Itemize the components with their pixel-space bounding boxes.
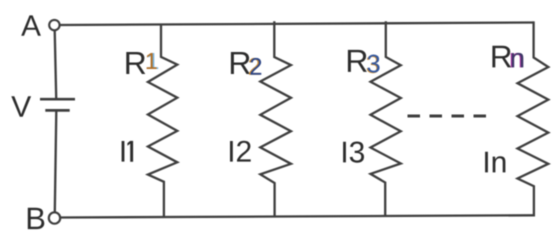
label R2 subscript 2 (blue core) bbox=[250, 58, 261, 75]
battery value label V bbox=[11, 96, 31, 117]
wire dashed continuation between R3 and Rn bbox=[408, 115, 488, 118]
resistor R3 bbox=[371, 21, 401, 216]
node B label bbox=[28, 208, 45, 229]
wire bottom rail from node B bbox=[61, 215, 534, 217]
label R1 superscript 1 (blue fringe) bbox=[148, 53, 158, 69]
label I1 letter I bbox=[122, 141, 125, 162]
label I1 narrow digit 1 bbox=[127, 141, 133, 162]
resistor R1 bbox=[148, 24, 177, 217]
terminal node B bbox=[49, 212, 60, 223]
battery V negative plate bbox=[45, 109, 69, 112]
label Rn letter R bbox=[492, 46, 511, 68]
label R3 subscript 3 (orange fringe) bbox=[367, 55, 379, 73]
terminal node A bbox=[49, 20, 59, 30]
battery V positive plate bbox=[40, 98, 75, 101]
node A label bbox=[21, 15, 41, 35]
label R1 letter R bbox=[126, 52, 145, 74]
label Rn subscript n (blue core) bbox=[512, 53, 524, 68]
label In bbox=[485, 152, 505, 173]
label Rn subscript n (magenta fringe) bbox=[511, 53, 523, 68]
wire left lead lower (battery to B) bbox=[55, 111, 57, 212]
resistor R2 bbox=[260, 21, 291, 216]
wire top rail from node A bbox=[61, 23, 534, 26]
label R3 subscript 3 (blue core) bbox=[368, 55, 380, 73]
resistor Rn bbox=[518, 23, 549, 216]
label R2 letter R bbox=[231, 52, 250, 74]
wire left lead upper (A to battery) bbox=[55, 30, 57, 98]
label R1 superscript 1 (orange) bbox=[147, 53, 157, 69]
label I2 bbox=[230, 141, 251, 162]
label R2 subscript 2 (orange fringe) bbox=[249, 58, 260, 75]
label I3 bbox=[343, 142, 364, 163]
label R3 letter R bbox=[348, 50, 367, 72]
